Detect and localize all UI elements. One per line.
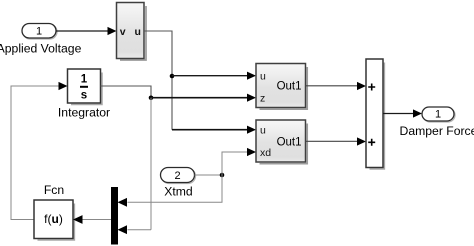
svg-text:Integrator: Integrator: [58, 106, 110, 120]
svg-text:v: v: [120, 26, 126, 38]
svg-text:1: 1: [81, 74, 88, 86]
svg-text:2: 2: [174, 170, 180, 182]
svg-text:Out1: Out1: [277, 80, 302, 92]
inport 2 (Xtmd): [161, 168, 196, 199]
svg-text:1: 1: [36, 26, 42, 38]
node at y76: [170, 74, 175, 79]
svg-text:Damper Force: Damper Force: [400, 124, 474, 138]
svg-text:s: s: [81, 90, 87, 102]
wire mux to f(u): [83, 219, 112, 221]
mux block: [111, 187, 118, 245]
svg-text:Fcn: Fcn: [44, 183, 64, 197]
feedback wire f(u) to integrator: [11, 82, 68, 220]
wire Out1 bottom to sum: [306, 137, 366, 145]
subsystem block v/u: [117, 3, 147, 61]
inport 1 (Applied Voltage): [0, 24, 82, 56]
svg-text:xd: xd: [260, 147, 271, 159]
wire to u of Out1 bottom: [172, 129, 248, 131]
svg-text:u: u: [260, 125, 266, 137]
svg-text:Applied Voltage: Applied Voltage: [0, 41, 82, 55]
Out1 subsystem top: [256, 64, 307, 110]
Xtmd wires: [118, 148, 257, 207]
Out1 subsystem bottom: [256, 120, 307, 164]
integrator block: [58, 69, 110, 120]
wire subsystem out, down, branches to u inputs: [145, 31, 256, 134]
svg-text:Xtmd: Xtmd: [164, 185, 192, 199]
svg-text:u: u: [260, 71, 266, 83]
outport 1 (Damper Force): [400, 107, 474, 138]
svg-text:z: z: [260, 93, 265, 105]
wire Out1 top to sum: [306, 82, 366, 90]
wire inport1 to subsystem: [56, 27, 117, 35]
Fcn block f(u): [34, 183, 83, 240]
svg-text:Out1: Out1: [277, 136, 302, 148]
svg-text:u: u: [134, 26, 140, 38]
integrator out wire to z and down to mux: [101, 86, 257, 234]
sum block: [366, 59, 384, 169]
wire sum to outport: [383, 109, 422, 117]
wire to u of Out1 top: [172, 75, 248, 77]
svg-text:1: 1: [435, 109, 441, 121]
svg-text:f(u): f(u): [44, 212, 63, 226]
